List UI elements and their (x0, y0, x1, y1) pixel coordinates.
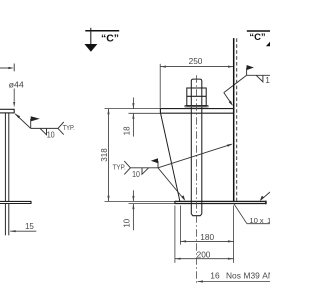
label ø44 with leader (9, 80, 25, 107)
section marker C (right, clipped) (247, 31, 270, 46)
left view: bottom flange plate (0, 201, 31, 204)
svg-text:“C”: “C” (101, 32, 119, 44)
left view: flange edge dimension stub (0, 64, 14, 72)
main view: gusset slant edge (161, 113, 180, 201)
svg-text:TYP.: TYP. (113, 162, 126, 171)
dimension 10 (bottom plate thickness) extension line (129, 203, 175, 205)
svg-text:10: 10 (249, 216, 258, 225)
svg-text:10: 10 (265, 76, 270, 85)
anchor rod end above nuts (191, 79, 202, 88)
double nuts (187, 88, 206, 106)
dimension 200 (175, 250, 234, 260)
dimension 250 extension line (left) (159, 64, 161, 108)
svg-text:1: 1 (267, 216, 270, 225)
section marker C (left) (84, 28, 119, 52)
dimension 318 extension lines (105, 108, 161, 110)
dimension 180 (180, 232, 233, 243)
dimension 180 extension lines (179, 206, 181, 245)
dimension 318 (100, 109, 110, 202)
weld symbol A: reference line, fillet triangle, size 10, tail TYP. (31, 122, 64, 135)
callout 10 x (plate edge) (234, 204, 271, 225)
leader arrow at bottom plate right (clipped from top-right) (260, 192, 270, 201)
svg-text:10: 10 (122, 218, 131, 227)
weld symbol C: field flag (247, 65, 254, 75)
main view: bottom plate (175, 201, 266, 205)
rod centerline (196, 75, 198, 283)
left view: web (5, 113, 8, 201)
svg-text:16: 16 (210, 271, 220, 281)
note: 16 Nos M39 anchor bolts (clipped) (198, 271, 274, 283)
weld symbol C: reference line + fillet triangle + size 10 (clipped) (247, 75, 270, 82)
left view: top flange (0, 109, 14, 114)
svg-text:15: 15 (25, 222, 34, 231)
anchor rod shank (191, 107, 202, 216)
svg-text:AN: AN (262, 271, 270, 281)
svg-text:18: 18 (122, 126, 131, 135)
dimension 15 (web thickness) (10, 222, 36, 232)
svg-text:250: 250 (189, 56, 203, 66)
main view: column hidden dashed line (236, 38, 238, 200)
weld symbol B: field flag (151, 158, 158, 168)
svg-text:180: 180 (200, 232, 214, 242)
svg-text:10: 10 (132, 170, 140, 179)
weld symbol A: leader arrow at flange corner (15, 114, 31, 129)
washer (185, 106, 208, 107)
dimension 200 extension line (left) (174, 206, 176, 263)
svg-text:TYP.: TYP. (63, 123, 75, 132)
main view: column face line (233, 38, 235, 201)
weld symbol C (top right): leader (224, 75, 247, 106)
left view: web below plate (5, 204, 8, 236)
svg-text:Nos: Nos (226, 271, 241, 281)
svg-text:M39: M39 (244, 271, 261, 281)
weld symbol B: leader 2 to gusset toe (158, 168, 185, 201)
svg-text:200: 200 (197, 250, 211, 260)
dimension 18 (122, 98, 134, 137)
svg-text:x: x (260, 216, 264, 225)
weld symbol A: field flag (31, 116, 40, 128)
svg-text:10: 10 (47, 130, 56, 139)
weld symbol B: leader 1 to column face (158, 144, 233, 168)
main view: top plate (160, 108, 233, 114)
dimension 250 (160, 56, 234, 68)
dimension 18 (plate thickness) extension line (129, 112, 161, 114)
svg-text:“C”: “C” (249, 32, 266, 43)
svg-text:318: 318 (100, 148, 109, 162)
dimension 10 (122, 190, 134, 230)
svg-text:ø44: ø44 (9, 80, 25, 89)
